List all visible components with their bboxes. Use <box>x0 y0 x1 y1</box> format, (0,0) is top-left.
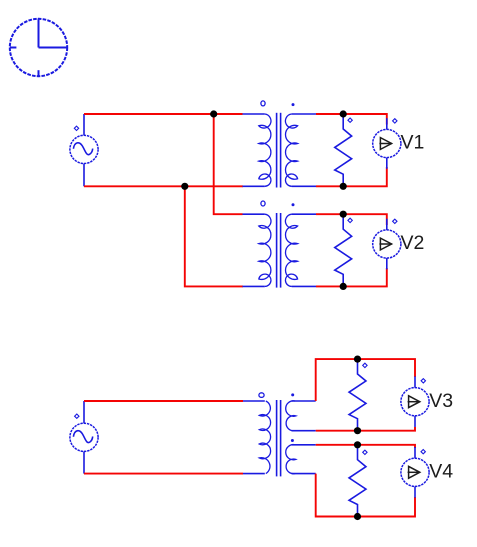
marker: V3 dot <box>421 379 425 383</box>
marker: R4 dot <box>363 450 367 454</box>
wire: secondary bottom lead <box>292 285 316 287</box>
transformer T3 secondary 1 winding <box>286 401 296 431</box>
transformer secondary winding <box>285 214 297 286</box>
wire: T1 secondary bottom to R1/V1 <box>316 167 387 186</box>
ac source V_ac2 <box>70 401 98 474</box>
voltmeter V3 <box>401 376 429 427</box>
transformer T3 secondary 1 leads <box>292 400 316 402</box>
svg-text:V4: V4 <box>429 461 453 483</box>
marker: T2 primary phase dot <box>261 201 265 206</box>
transformer core <box>276 213 278 288</box>
voltmeter V2 <box>373 219 401 270</box>
marker: V2 dot <box>393 219 397 223</box>
marker: source2 plus <box>75 414 79 418</box>
marker: T3 primary phase ring <box>259 393 264 398</box>
wire: source1 top to transformer T1 <box>84 113 243 115</box>
wire: node A branch down to T2 primary top <box>214 114 243 214</box>
wire: primary top lead <box>243 113 265 115</box>
marker: T3 secondary1 phase dot <box>291 393 294 396</box>
node: R3 bottom junction <box>354 427 361 434</box>
svg-text:V1: V1 <box>401 132 425 154</box>
wire: secondary top lead <box>292 113 316 115</box>
marker: T1 secondary phase dot <box>292 103 295 106</box>
ac source V_ac1 <box>70 114 98 186</box>
wire: source2 bottom to transformer T3 <box>84 473 243 475</box>
wire: secondary bottom lead <box>292 185 316 187</box>
transformer primary winding <box>259 214 271 286</box>
transformer T3 primary top lead <box>243 400 265 402</box>
marker: source1 plus <box>74 126 78 130</box>
wire: T1 secondary top to R1/V1 <box>316 114 387 125</box>
marker: R2 dot <box>348 218 352 222</box>
wire: secondary1 bottom rail to V3 <box>316 427 415 431</box>
wire: secondary1 top up and across to V3 <box>316 359 415 401</box>
transformer T3 core <box>276 400 278 476</box>
marker: R1 dot <box>348 118 352 122</box>
marker: V4 dot <box>421 450 425 454</box>
node: R1 top junction <box>340 110 347 117</box>
wire: secondary top lead <box>292 213 316 215</box>
transformer T3 secondary 2 winding <box>286 445 296 474</box>
svg-text:V3: V3 <box>429 390 453 412</box>
marker: T2 secondary phase dot <box>292 203 295 206</box>
transformer secondary winding <box>285 114 297 186</box>
wire: source2 top to transformer T3 <box>84 400 243 402</box>
node: R4 bottom junction <box>354 513 361 520</box>
transformer core <box>276 113 278 188</box>
wire: secondary2 bottom down and across to V4 <box>316 474 415 517</box>
wire: secondary2 top rail to V4 <box>316 445 415 448</box>
clock icon <box>10 19 67 77</box>
node: R1 bottom junction <box>340 183 347 190</box>
transformer T3 primary bottom lead <box>243 473 265 475</box>
resistor R3 <box>349 359 366 431</box>
voltmeter V1 <box>373 118 401 169</box>
transformer T2 <box>243 213 317 288</box>
marker: T1 primary phase dot <box>261 101 265 106</box>
node A junction <box>210 110 217 117</box>
transformer T1 <box>243 113 317 188</box>
wire: T2 secondary top to R2/V2 <box>316 214 387 225</box>
resistor R1 <box>335 114 352 186</box>
marker: R3 dot <box>363 363 367 367</box>
resistor R2 <box>335 214 352 286</box>
node: R2 bottom junction <box>340 283 347 290</box>
wire: node B branch down to T2 primary bottom <box>185 186 243 286</box>
transformer T3 secondary 2 leads <box>292 444 316 446</box>
node: R4 top junction <box>354 441 361 448</box>
resistor R4 <box>349 445 366 517</box>
node: R3 top junction <box>354 356 361 363</box>
marker: T3 secondary2 phase dot <box>291 439 294 442</box>
svg-text:V2: V2 <box>401 232 425 254</box>
voltmeter V4 <box>401 447 429 498</box>
transformer T3 primary winding <box>259 401 270 474</box>
wire: primary top lead <box>243 213 265 215</box>
wire: primary bottom lead <box>243 185 265 187</box>
wire: T2 secondary bottom to R2/V2 <box>316 268 387 286</box>
marker: V1 dot <box>393 119 397 123</box>
node: R2 top junction <box>340 211 347 218</box>
wire: primary bottom lead <box>243 285 265 287</box>
node B junction <box>181 183 188 190</box>
wire: source1 bottom rail <box>84 185 243 187</box>
transformer primary winding <box>259 114 271 186</box>
